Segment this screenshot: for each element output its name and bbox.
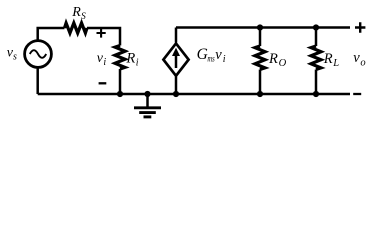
- svg-text:o: o: [360, 57, 365, 68]
- label RS: [71, 5, 86, 22]
- junction dot ground: [144, 91, 150, 97]
- svg-text:R: R: [71, 5, 81, 20]
- wire RS to Ri corner: [87, 28, 120, 46]
- bottom rail: [38, 93, 350, 96]
- svg-text:v: v: [353, 50, 360, 66]
- label vs: [7, 45, 17, 62]
- wire vs top to RS: [38, 28, 65, 41]
- label RL: [323, 51, 339, 69]
- svg-text:S: S: [81, 12, 86, 22]
- top right rail: [176, 26, 350, 29]
- svg-text:i: i: [223, 54, 226, 65]
- junction dot RO top: [257, 24, 263, 30]
- minus sign vi: [99, 82, 107, 84]
- label Gms vi: [197, 46, 226, 65]
- label vi: [97, 51, 107, 68]
- svg-text:R: R: [125, 51, 135, 67]
- svg-text:R: R: [323, 51, 333, 67]
- label RO: [268, 51, 287, 69]
- junction dot source bottom: [173, 91, 179, 97]
- junction dot RO bottom: [257, 91, 263, 97]
- label Ri: [125, 51, 138, 69]
- svg-text:O: O: [279, 58, 287, 69]
- resistor RL: [311, 28, 321, 95]
- plus sign vi: [97, 28, 106, 37]
- svg-text:i: i: [103, 57, 106, 68]
- svg-text:i: i: [136, 57, 139, 68]
- resistor Ri: [115, 46, 125, 95]
- resistor RS: [65, 23, 88, 33]
- svg-text:ms: ms: [207, 55, 215, 65]
- label vo: [353, 50, 365, 68]
- voltage source vs: [25, 41, 52, 68]
- plus sign output: [355, 22, 365, 32]
- svg-text:s: s: [13, 51, 17, 62]
- junction dot RL bottom: [313, 91, 319, 97]
- dependent current source Gms vi: [163, 28, 188, 95]
- svg-text:G: G: [197, 46, 208, 63]
- svg-text:v: v: [215, 47, 222, 63]
- ground: [134, 94, 161, 117]
- minus sign output: [353, 93, 361, 95]
- svg-text:R: R: [268, 51, 278, 67]
- junction dot RL top: [313, 24, 319, 30]
- resistor RO: [255, 28, 265, 95]
- svg-text:L: L: [332, 58, 339, 69]
- wire vs bottom to rail: [36, 67, 39, 94]
- junction dot Ri bottom: [117, 91, 123, 97]
